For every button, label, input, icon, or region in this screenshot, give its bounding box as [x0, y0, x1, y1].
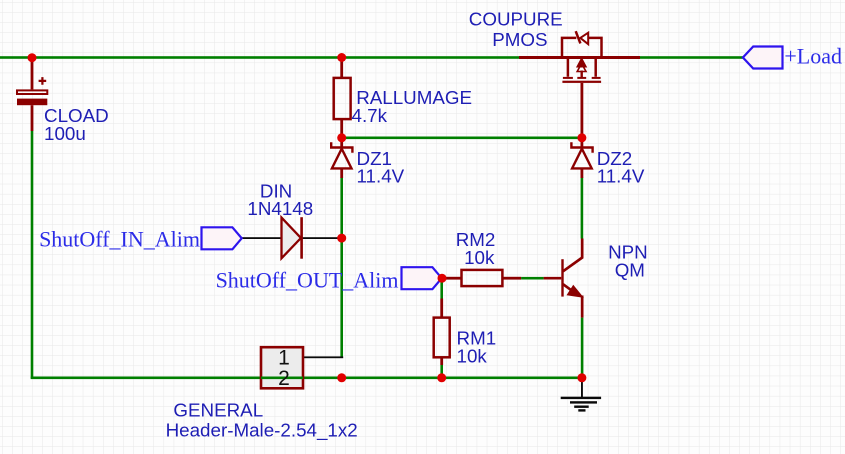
svg-text:COUPURE: COUPURE — [469, 9, 563, 30]
svg-text:ShutOff_OUT_Alim: ShutOff_OUT_Alim — [216, 268, 399, 293]
svg-text:4.7k: 4.7k — [352, 105, 388, 126]
wire: diode black wire right — [303, 237, 344, 239]
svg-text:PMOS: PMOS — [492, 29, 547, 50]
source/drain stubs — [568, 58, 596, 77]
svg-text:10k: 10k — [464, 247, 495, 268]
header GENERAL (1x2) — [261, 347, 303, 390]
diode DIN — [282, 217, 303, 259]
capacitor CLOAD — [17, 59, 47, 131]
port ShutOff_IN_Alim — [202, 227, 242, 249]
wire: top rail left (green) — [0, 56, 519, 59]
body diode loop — [562, 38, 602, 58]
svg-text:11.4V: 11.4V — [597, 166, 645, 187]
svg-text:2: 2 — [278, 367, 290, 390]
resistor RM1 — [434, 299, 450, 366]
svg-text:GENERAL: GENERAL — [173, 400, 263, 421]
main horizontal line (S-D pins) — [519, 56, 640, 59]
node: DZ2 top / gate — [577, 133, 586, 142]
ground — [561, 378, 601, 412]
wire: mid horizontal (DZ1-DZ2) — [342, 137, 582, 140]
svg-text:1N4148: 1N4148 — [247, 198, 313, 219]
node: DZ1 top — [337, 133, 346, 142]
node: RALLUMAGE top — [337, 53, 346, 62]
wire: RM2 to base (green) — [521, 277, 544, 280]
PMOS COUPURE (transistor) — [519, 31, 640, 138]
node: bottom rail at RM1 — [437, 373, 446, 382]
svg-text:10k: 10k — [457, 345, 488, 366]
svg-text:ShutOff_IN_Alim: ShutOff_IN_Alim — [39, 227, 200, 252]
body diode bar (slanted) — [576, 31, 581, 43]
svg-text:100u: 100u — [44, 123, 86, 144]
node: bottom rail at x341 — [337, 373, 346, 382]
wire: DZ1 anode down to header corner — [340, 178, 343, 359]
wire: left vertical rail — [31, 131, 34, 379]
zener DZ2 — [571, 138, 592, 178]
wire: diode black wire left — [242, 237, 282, 239]
wire: DZ2 anode to NPN collector — [581, 178, 584, 239]
resistor RM2 — [444, 270, 521, 286]
wire: NPN emitter down — [581, 318, 584, 378]
svg-text:+Load: +Load — [784, 44, 842, 69]
wire: bottom rail — [31, 377, 582, 380]
wire: header pin1 black wire — [303, 356, 343, 358]
gate pin down — [581, 83, 584, 138]
port +Load — [743, 47, 783, 69]
port ShutOff_OUT_Alim — [402, 267, 442, 289]
node: DIN cathode junction — [337, 234, 346, 243]
svg-text:Header-Male-2.54_1x2: Header-Male-2.54_1x2 — [166, 419, 358, 441]
body diode triangle — [580, 33, 588, 45]
svg-text:QM: QM — [615, 259, 645, 280]
wire: top rail right (green) — [640, 56, 743, 59]
bulk arrow — [577, 59, 586, 67]
wire: RM1 top — [440, 281, 443, 299]
transistor QM (NPN) — [544, 239, 584, 318]
zener DZ1 — [331, 138, 352, 178]
resistor RALLUMAGE — [334, 59, 351, 136]
node: bottom rail at ground — [577, 373, 586, 382]
wire: RM1 bottom — [440, 365, 443, 378]
svg-text:11.4V: 11.4V — [357, 166, 405, 187]
channel bars — [562, 77, 601, 83]
node: CLOAD top — [28, 53, 37, 62]
node: OUT port junction — [438, 274, 447, 283]
